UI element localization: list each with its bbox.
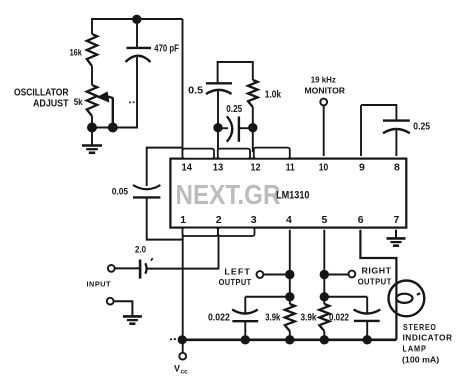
label MONITOR — [305, 85, 346, 95]
label 0.022 left — [208, 312, 230, 323]
label ADJUST — [33, 99, 69, 110]
label 0.05 — [112, 186, 129, 197]
wire 0.05 to pin1 — [147, 239, 183, 241]
svg-text:9: 9 — [359, 161, 365, 173]
svg-text:7: 7 — [394, 214, 400, 226]
wire right 0.022 branch — [324, 296, 367, 298]
wire Vcc stub — [182, 340, 184, 353]
capacitor C 0.05 plate — [133, 196, 160, 198]
capacitor C 470pF curve — [126, 56, 151, 62]
wire wiper drop — [112, 98, 114, 128]
svg-text:(100 mA): (100 mA) — [402, 354, 439, 364]
svg-text:5k: 5k — [74, 97, 83, 108]
capacitor C 0.25a curve — [227, 116, 233, 142]
svg-text:ADJUST: ADJUST — [33, 99, 69, 110]
noise dots — [170, 338, 176, 340]
wire 16k to pot — [91, 66, 93, 85]
svg-text:11: 11 — [286, 161, 295, 173]
capacitor C 0.022R curve — [354, 310, 381, 314]
capacitor C 2.0 curve — [145, 263, 146, 274]
IC U1 LM1310 body — [170, 159, 406, 228]
potentiometer 5k — [87, 85, 97, 116]
node pot-bottom left — [87, 123, 97, 133]
terminal input hot — [108, 265, 115, 272]
label RIGHT — [362, 265, 392, 275]
node Vcc junction — [178, 335, 187, 344]
capacitor C 0.022R plate — [354, 320, 380, 322]
wire monitor to pin10 — [323, 106, 325, 157]
wire pin7 gnd stem — [395, 230, 397, 238]
IC pin tab top 13 — [218, 149, 250, 159]
resistor R 3.9k right — [319, 304, 329, 331]
wire rail right drop — [182, 19, 184, 155]
svg-text:16k: 16k — [70, 47, 82, 57]
capacitor C 0.05 curve — [133, 185, 160, 189]
capacitor C 0.5 curve — [206, 90, 232, 94]
pin 5 — [322, 214, 328, 226]
wire R39L to rail — [289, 331, 291, 340]
svg-text:V: V — [174, 363, 180, 373]
svg-text:cc: cc — [181, 368, 189, 375]
capacitor C 0.022L plate — [232, 320, 258, 322]
wire node12 to pin12 — [252, 128, 254, 152]
label 5k — [74, 97, 83, 108]
svg-text:4: 4 — [286, 214, 292, 226]
pin 1 — [180, 214, 186, 226]
node pin5 cap branch — [320, 292, 329, 301]
label RIGHT OUTPUT — [358, 277, 392, 287]
svg-text:0.022: 0.022 — [329, 312, 349, 323]
wire node13 stub — [218, 127, 228, 129]
capacitor C 0.25b curve — [383, 129, 410, 133]
svg-text:LM1310: LM1310 — [276, 190, 310, 202]
wire bracket 9-8 — [361, 105, 396, 120]
wire left 0.022 down — [244, 321, 246, 340]
svg-text:0.05: 0.05 — [112, 186, 129, 197]
pin 14 — [182, 161, 193, 173]
svg-text:3.9k: 3.9k — [265, 312, 280, 323]
svg-text:0.25: 0.25 — [413, 122, 430, 133]
svg-text:0.022: 0.022 — [208, 312, 230, 323]
wire node13 to pin13 — [217, 128, 219, 152]
capacitor C 2.0 plate — [139, 260, 142, 279]
pin 3 — [251, 214, 257, 226]
wire 0.05 top stem — [146, 148, 148, 186]
lamp DS1 tick — [417, 293, 420, 295]
svg-text:INDICATOR: INDICATOR — [403, 333, 453, 343]
wire 0.5 to node13 — [217, 90, 219, 124]
wire left drop to R 16k — [91, 18, 93, 34]
svg-text:12: 12 — [251, 161, 261, 173]
label INDICATOR — [403, 333, 453, 343]
terminal 19kHz monitor — [320, 99, 327, 106]
capacitor C 470pF plate — [127, 47, 152, 49]
IC pin tab bottom 2 — [218, 228, 255, 236]
svg-text:OUTPUT: OUTPUT — [358, 277, 392, 287]
svg-text:2: 2 — [216, 214, 222, 226]
svg-text:19 kHz: 19 kHz — [311, 76, 336, 85]
wire pin9 up — [360, 105, 362, 156]
label 19 kHz — [311, 76, 336, 85]
wire bottom rail — [182, 338, 396, 341]
ground input — [123, 316, 142, 323]
label 0.25a — [226, 104, 242, 115]
label Vcc — [174, 363, 188, 375]
wire right 0.022 down — [366, 321, 368, 340]
wire 1.0k to node12 — [252, 107, 254, 124]
terminal left output — [257, 271, 264, 278]
wire bracket 13-12 — [218, 62, 253, 83]
node pin4 cap branch — [285, 292, 294, 301]
pin 7 — [394, 214, 400, 226]
label 0.022 right — [329, 312, 349, 323]
wire top rail — [92, 18, 183, 20]
lamp DS1 bulb — [389, 281, 425, 317]
label LEFT — [224, 266, 251, 276]
wire 470pF bottom — [136, 57, 138, 129]
svg-text:10: 10 — [319, 161, 329, 173]
svg-text:LAMP: LAMP — [403, 344, 427, 354]
resistor R 1.0k — [248, 80, 258, 107]
pin 2 — [216, 214, 222, 226]
label INPUT — [87, 280, 112, 289]
node left 0.022 rail — [241, 335, 250, 344]
terminal right output — [349, 271, 356, 278]
svg-text:0.5: 0.5 — [188, 86, 203, 97]
svg-text:3: 3 — [251, 214, 257, 226]
wire pin2 down — [218, 235, 220, 270]
wire pot to bottom node — [91, 116, 93, 128]
svg-text:3.9k: 3.9k — [301, 312, 317, 323]
wire 0.05 bottom stem — [146, 197, 148, 240]
label plus — [151, 258, 153, 261]
svg-text:13: 13 — [213, 161, 224, 173]
wire 0.25b to pin8 — [395, 130, 397, 156]
wire 470pF top — [136, 19, 138, 47]
svg-text:RIGHT: RIGHT — [362, 265, 392, 275]
svg-text:470 pF: 470 pF — [154, 44, 179, 55]
label LAMP — [403, 344, 427, 354]
pin 12 — [251, 161, 261, 173]
pin 11 — [286, 161, 295, 173]
wire left 0.022 stem — [244, 297, 246, 313]
node right 0.022 rail — [363, 335, 372, 344]
svg-text:2.0: 2.0 — [135, 244, 146, 254]
label 3.9k right — [301, 312, 317, 323]
terminal Vcc — [179, 353, 186, 360]
capacitor C 0.25a plate — [238, 117, 240, 142]
wire right 0.022 stem — [366, 297, 368, 313]
label 1.0k — [265, 90, 281, 101]
label OSCILLATOR — [14, 87, 69, 98]
svg-text:5: 5 — [322, 214, 328, 226]
svg-text:INPUT: INPUT — [87, 280, 112, 289]
node wiper-bottom — [108, 123, 118, 133]
node pin13 top — [213, 123, 222, 132]
wire pin6 route — [360, 230, 396, 340]
node pin5 rail — [320, 335, 329, 344]
pin 13 — [213, 161, 224, 173]
wire oscillator bottom link — [88, 127, 137, 129]
label 3.9k left — [265, 312, 280, 323]
wire pin4 down — [289, 230, 291, 304]
IC pin tab bottom 1 — [183, 228, 219, 236]
svg-text:OUTPUT: OUTPUT — [219, 277, 252, 287]
wire left 0.022 branch — [245, 296, 289, 298]
pin 6 — [358, 214, 364, 226]
label 0.5 — [188, 86, 203, 97]
svg-text:1: 1 — [180, 214, 186, 226]
wire input to cap — [115, 267, 139, 269]
node top-rail junction — [132, 15, 141, 24]
label 16k — [70, 47, 82, 57]
svg-text:8: 8 — [394, 161, 400, 173]
svg-text:14: 14 — [182, 161, 193, 173]
wire input gnd link — [114, 301, 133, 315]
terminal input gnd — [107, 298, 114, 305]
ground oscillator — [82, 146, 102, 153]
noise dots pot — [129, 101, 135, 103]
pin 8 — [394, 161, 400, 173]
svg-text:STEREO: STEREO — [403, 322, 437, 332]
watermark NEXT.GR — [176, 179, 281, 210]
wire branch to 0.05 — [146, 147, 183, 149]
pot wiper arrow — [97, 91, 113, 102]
wire pin1 down — [182, 235, 184, 341]
lamp DS1 filament — [396, 294, 412, 303]
svg-text:0.25: 0.25 — [226, 104, 242, 115]
resistor R 3.9k left — [285, 304, 295, 331]
pin 10 — [319, 161, 329, 173]
label LM1310 — [276, 190, 310, 202]
label 2.0 — [135, 244, 146, 254]
pin 4 — [286, 214, 292, 226]
wire pin5 down — [323, 230, 325, 304]
svg-text:OSCILLATOR: OSCILLATOR — [14, 87, 69, 98]
wire cap to pin2 — [148, 268, 219, 270]
IC pin tab top 14 — [183, 149, 215, 159]
wire node12 stub — [239, 127, 253, 129]
label 470 pF — [154, 44, 179, 55]
label 100mA — [402, 354, 439, 364]
wire R39R to rail — [323, 331, 325, 340]
capacitor C 0.25b plate — [383, 119, 410, 121]
capacitor C 0.5 plate — [206, 82, 232, 84]
node pin4 rail — [285, 335, 294, 344]
wire right output — [324, 274, 348, 276]
node pin5 output — [320, 270, 329, 279]
pin 9 — [359, 161, 365, 173]
svg-text:6: 6 — [358, 214, 364, 226]
ground pin7 — [387, 238, 406, 245]
label 0.25b — [413, 122, 430, 133]
capacitor C 0.022L curve — [232, 310, 258, 314]
IC pin tab top 12 — [254, 148, 290, 159]
node pin4 output — [285, 270, 294, 279]
svg-text:MONITOR: MONITOR — [305, 85, 346, 95]
svg-text:1.0k: 1.0k — [265, 90, 281, 101]
wire left output — [263, 274, 290, 276]
svg-text:NEXT.GR: NEXT.GR — [176, 179, 281, 210]
label LEFT OUTPUT — [219, 277, 252, 287]
label STEREO — [403, 322, 437, 332]
node pin12 top — [248, 123, 257, 132]
resistor R 16k — [87, 34, 97, 66]
wire ground stem — [91, 128, 93, 145]
svg-text:LEFT: LEFT — [224, 266, 251, 276]
